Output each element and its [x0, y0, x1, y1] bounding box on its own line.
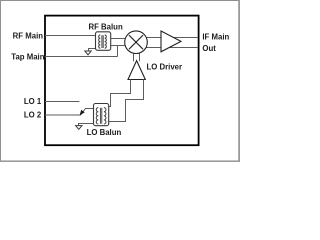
- svg-text:LO Balun: LO Balun: [87, 128, 122, 137]
- wire LO 2 input with diagonal to balun: [45, 109, 98, 116]
- RF balun core lines: [101, 35, 103, 48]
- op-amp IF amplifier: [161, 31, 181, 52]
- wire RF balun primary to ground: [89, 45, 98, 51]
- wire LO 1 input stub: [45, 101, 79, 103]
- wire mixer to LO driver (stem pair): [133, 53, 135, 62]
- wire LO driver output left branch (staircase to LO balun upper tap): [109, 80, 131, 107]
- svg-text:LO 2: LO 2: [24, 111, 42, 120]
- LO balun box: [94, 104, 109, 126]
- ground (RF balun): [85, 51, 91, 55]
- wire LO balun primary to ground: [79, 124, 99, 126]
- svg-text:IF Main: IF Main: [202, 33, 229, 42]
- svg-text:LO 1: LO 1: [24, 97, 42, 106]
- wire mixer to IF amp / IF Main out: [147, 37, 199, 39]
- LO balun transformer right winding: [104, 108, 106, 124]
- device outline box: [45, 16, 199, 146]
- svg-text:RF Balun: RF Balun: [88, 23, 122, 32]
- wire RF Main input: [45, 35, 101, 37]
- LO driver amplifier: [128, 61, 145, 80]
- wire balun secondary bottom to mixer: [110, 45, 125, 47]
- mixer U1: [125, 31, 148, 54]
- svg-text:Out: Out: [202, 44, 216, 53]
- wire tap riser to balun lower secondary: [117, 46, 119, 57]
- wire balun secondary top to mixer: [110, 38, 125, 40]
- LO balun transformer left winding: [96, 108, 98, 124]
- RF balun transformer left winding: [99, 35, 101, 48]
- wire mixer to Out: [147, 47, 199, 49]
- RF balun box: [96, 32, 111, 51]
- arrowhead on LO2 diagonal: [80, 110, 85, 116]
- svg-text:RF Main: RF Main: [13, 31, 44, 40]
- outer gray frame: [1, 1, 240, 162]
- svg-text:LO Driver: LO Driver: [147, 63, 183, 72]
- wire Tap Main input: [45, 56, 118, 58]
- wire LO driver output right branch (staircase to LO balun lower tap): [109, 80, 144, 122]
- svg-text:Tap Main: Tap Main: [11, 52, 44, 61]
- LO balun core lines: [99, 108, 101, 124]
- ground (LO balun): [76, 126, 82, 130]
- RF balun transformer right winding: [105, 35, 107, 48]
